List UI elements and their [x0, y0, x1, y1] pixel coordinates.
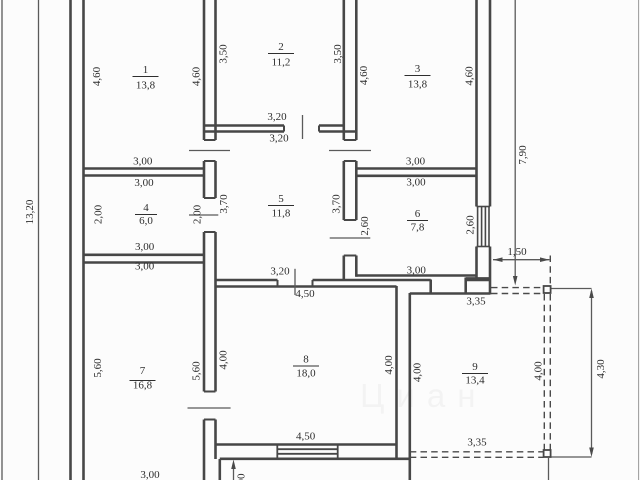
svg-text:4,60: 4,60 [91, 66, 103, 86]
svg-text:3,50: 3,50 [218, 44, 230, 64]
svg-text:3,35: 3,35 [467, 437, 487, 449]
svg-text:4,50: 4,50 [296, 431, 316, 443]
svg-text:6,0: 6,0 [139, 215, 153, 227]
svg-text:3,00: 3,00 [133, 156, 153, 168]
svg-text:3,70: 3,70 [331, 194, 343, 214]
svg-text:16,8: 16,8 [133, 380, 153, 392]
svg-text:4,60: 4,60 [463, 66, 475, 86]
svg-text:11,8: 11,8 [272, 208, 291, 220]
svg-text:4,60: 4,60 [358, 65, 370, 85]
svg-text:4,00: 4,00 [383, 355, 395, 375]
svg-text:3,00: 3,00 [135, 261, 155, 273]
svg-text:2,60: 2,60 [464, 215, 476, 235]
svg-text:2,00: 2,00 [192, 204, 204, 224]
svg-text:3,00: 3,00 [135, 241, 155, 253]
svg-text:13,20: 13,20 [24, 199, 36, 224]
svg-text:3,20: 3,20 [270, 266, 290, 278]
svg-text:13,8: 13,8 [408, 79, 428, 91]
svg-text:8: 8 [303, 354, 309, 366]
svg-text:5,60: 5,60 [92, 358, 104, 378]
svg-text:7,90: 7,90 [517, 145, 529, 165]
svg-text:7,8: 7,8 [411, 222, 425, 234]
svg-text:5: 5 [278, 193, 284, 205]
svg-text:9: 9 [472, 361, 478, 373]
svg-text:3,20: 3,20 [267, 111, 287, 123]
svg-text:4,00: 4,00 [532, 361, 544, 381]
svg-text:4,30: 4,30 [595, 359, 607, 379]
svg-text:11,2: 11,2 [272, 57, 291, 69]
svg-text:18,0: 18,0 [296, 368, 316, 380]
svg-text:2,60: 2,60 [359, 216, 371, 236]
svg-text:6: 6 [415, 208, 421, 220]
svg-text:3,00: 3,00 [407, 265, 427, 277]
svg-text:3,20: 3,20 [269, 133, 289, 145]
svg-text:3: 3 [415, 63, 421, 75]
svg-text:3,70: 3,70 [218, 194, 230, 214]
svg-text:1,50: 1,50 [507, 246, 527, 258]
svg-text:13,8: 13,8 [136, 80, 156, 92]
svg-text:3,00: 3,00 [406, 177, 426, 189]
svg-text:13,4: 13,4 [465, 375, 485, 387]
svg-text:4: 4 [143, 202, 149, 214]
svg-text:4,50: 4,50 [295, 288, 315, 300]
svg-text:4,00: 4,00 [412, 362, 424, 382]
svg-text:4,00: 4,00 [218, 350, 230, 370]
svg-text:7: 7 [140, 365, 146, 377]
svg-text:90: 90 [236, 473, 248, 480]
svg-text:4,60: 4,60 [191, 66, 203, 86]
svg-text:3,50: 3,50 [332, 44, 344, 64]
svg-text:2: 2 [278, 41, 284, 53]
svg-text:3,00: 3,00 [134, 177, 154, 189]
svg-text:5,60: 5,60 [191, 361, 203, 381]
svg-text:3,35: 3,35 [466, 296, 486, 308]
svg-text:1: 1 [143, 64, 149, 76]
svg-text:2,00: 2,00 [93, 204, 105, 224]
svg-text:3,00: 3,00 [140, 469, 160, 480]
svg-text:3,00: 3,00 [406, 156, 426, 168]
